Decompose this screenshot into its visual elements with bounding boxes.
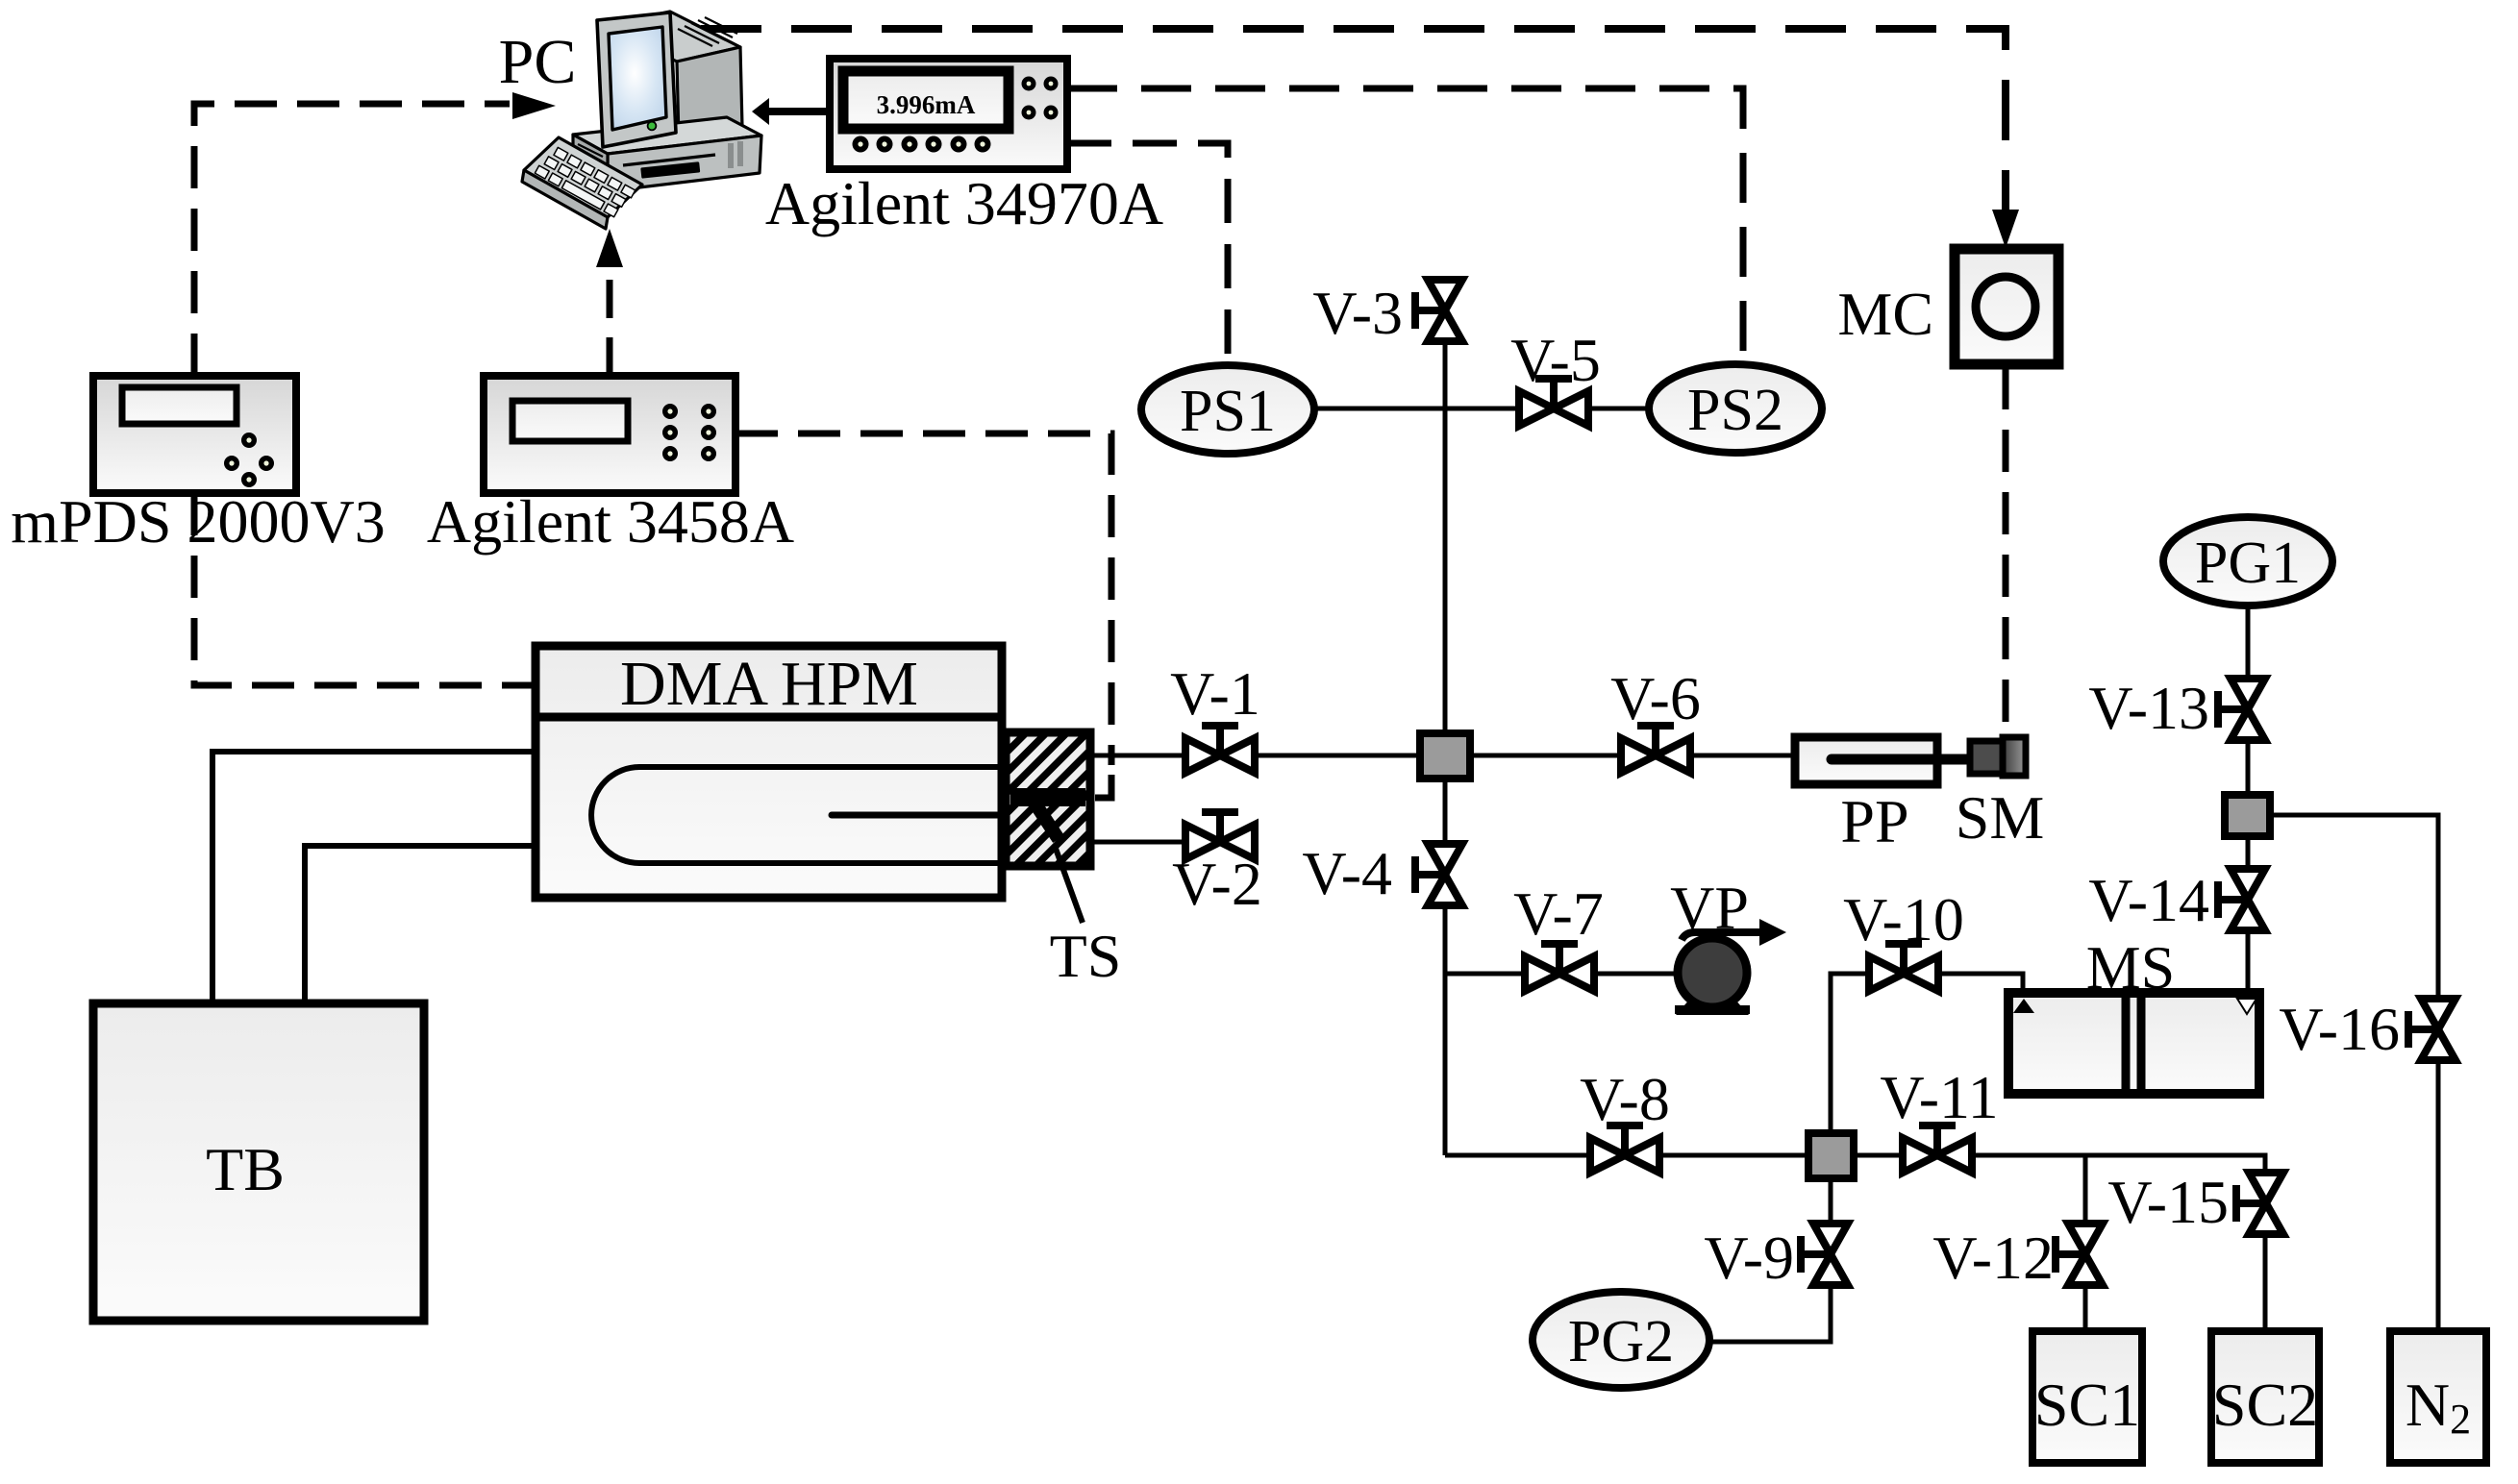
svg-text:PP: PP bbox=[1840, 787, 1908, 855]
svg-text:SC2: SC2 bbox=[2212, 1371, 2318, 1439]
valve V-2 bbox=[1172, 812, 1262, 918]
tank TB thermostat bath bbox=[93, 1003, 424, 1321]
device MC bbox=[1837, 249, 2058, 364]
valve V-10 bbox=[1843, 885, 1964, 991]
svg-text:Agilent 3458A: Agilent 3458A bbox=[427, 487, 794, 556]
wire solid 34970A-to-PC arrow bbox=[769, 108, 831, 115]
node junction J3 bbox=[2225, 795, 2270, 836]
wire vertical V-3-to-V-8 line bbox=[1443, 341, 1448, 1155]
instrument Agilent 34970A bbox=[765, 59, 1163, 237]
svg-text:V-6: V-6 bbox=[1610, 664, 1701, 732]
svg-text:Agilent 34970A: Agilent 34970A bbox=[765, 169, 1163, 237]
device PP piston bbox=[1795, 737, 1973, 855]
pointer line to TS label bbox=[1055, 846, 1083, 923]
arrow into MC bbox=[1992, 210, 2019, 248]
wire dashed mPDS-to-DMA bbox=[194, 493, 532, 685]
svg-text:SC1: SC1 bbox=[2034, 1371, 2140, 1439]
svg-text:V-1: V-1 bbox=[1170, 659, 1260, 728]
wire PS1-to-PS2 bbox=[1308, 407, 1654, 411]
wire V-15-to-SC2 bbox=[2263, 1232, 2268, 1331]
svg-text:PS2: PS2 bbox=[1687, 378, 1783, 443]
wire V-7 branch to VP bbox=[1445, 972, 1679, 977]
block TS thermostat hatch bbox=[1006, 732, 1090, 866]
svg-text:V-13: V-13 bbox=[2088, 674, 2209, 742]
tank SC1 bbox=[2032, 1331, 2142, 1463]
svg-text:PG1: PG1 bbox=[2195, 531, 2301, 596]
valve V-12 bbox=[1932, 1224, 2103, 1292]
wire junction3-to-V-16-to-N2 bbox=[2274, 815, 2438, 1331]
tank SC2 bbox=[2211, 1331, 2319, 1463]
instrument mPDS 2000V3 bbox=[11, 376, 385, 556]
svg-text:V-16: V-16 bbox=[2279, 995, 2400, 1063]
sensor PS2 bbox=[1649, 364, 1822, 453]
wire junction2-to-V-10-to-MS bbox=[1831, 974, 2023, 1130]
valve V-8 bbox=[1580, 1065, 1670, 1173]
svg-text:V-15: V-15 bbox=[2107, 1168, 2229, 1236]
wire branch down to V-12 bbox=[2083, 1155, 2088, 1225]
valve V-16 bbox=[2279, 995, 2456, 1063]
valve V-6 bbox=[1610, 664, 1701, 773]
valve V-3 bbox=[1312, 279, 1462, 347]
svg-text:TB: TB bbox=[206, 1135, 285, 1203]
node junction J1 bbox=[1420, 733, 1470, 779]
svg-text:DMA HPM: DMA HPM bbox=[620, 649, 918, 719]
device DMA HPM densimeter bbox=[536, 646, 1002, 898]
sensor PS1 bbox=[1141, 365, 1314, 454]
wire dashed 3458A-to-PC bbox=[607, 267, 613, 376]
wire dashed PC-to-MC (top line) bbox=[701, 29, 2006, 210]
svg-text:V-12: V-12 bbox=[1932, 1224, 2054, 1292]
wire main line DMA-to-PP (through V-1, V-6) bbox=[1090, 754, 1795, 758]
svg-text:V-11: V-11 bbox=[1880, 1063, 1998, 1131]
svg-text:MS: MS bbox=[2086, 933, 2176, 1002]
wire dashed mPDS-to-PC bbox=[194, 104, 510, 376]
gauge PG1 bbox=[2163, 517, 2332, 606]
U-tube inside DMA bbox=[591, 767, 1006, 863]
svg-text:PC: PC bbox=[499, 27, 577, 97]
wire dashed 34970A-to-PS1 bbox=[1067, 143, 1228, 365]
capillary inside U-tube bbox=[832, 812, 1038, 819]
computer PC bbox=[522, 12, 761, 229]
wire V-11 line junction2-to-V-15 corner bbox=[1857, 1155, 2265, 1175]
wire DMA-to-V-2 bbox=[1090, 840, 1254, 845]
svg-text:3.996mA: 3.996mA bbox=[877, 90, 976, 119]
device SM stepper bbox=[1956, 737, 2045, 852]
wire junction3-to-V-14-to-MS bbox=[2246, 839, 2251, 998]
svg-text:PG2: PG2 bbox=[1568, 1309, 1674, 1374]
wire TB-to-DMA lower bbox=[305, 846, 536, 1003]
valve V-1 bbox=[1170, 659, 1260, 773]
svg-text:V-2: V-2 bbox=[1172, 850, 1262, 918]
wire PG1-to-V-13 bbox=[2246, 606, 2251, 679]
device MS bbox=[2008, 933, 2259, 1094]
svg-text:V-3: V-3 bbox=[1312, 279, 1403, 347]
svg-text:mPDS 2000V3: mPDS 2000V3 bbox=[11, 487, 385, 556]
node junction J2 bbox=[1808, 1133, 1854, 1178]
valve V-15 bbox=[2107, 1168, 2283, 1236]
svg-text:VP: VP bbox=[1670, 874, 1749, 942]
valve V-4 bbox=[1302, 839, 1462, 907]
valve V-11 bbox=[1880, 1063, 1998, 1173]
svg-text:V-10: V-10 bbox=[1843, 885, 1964, 953]
svg-text:V-8: V-8 bbox=[1580, 1065, 1670, 1133]
wire V-8 line to junction2 bbox=[1445, 1153, 1806, 1158]
arrow into PC from mPDS bbox=[512, 92, 556, 119]
svg-text:MC: MC bbox=[1837, 280, 1933, 348]
wire dashed 3458A-to-TS bbox=[735, 433, 1111, 765]
svg-text:TS: TS bbox=[1050, 922, 1122, 990]
wire dashed MC-to-SM bbox=[2003, 367, 2009, 738]
svg-text:V-9: V-9 bbox=[1704, 1224, 1794, 1292]
wire dashed 34970A-to-PS2 bbox=[1067, 88, 1743, 365]
svg-text:V-5: V-5 bbox=[1510, 326, 1601, 394]
valve V-5 bbox=[1510, 326, 1601, 426]
svg-text:V-4: V-4 bbox=[1302, 839, 1392, 907]
svg-text:V-7: V-7 bbox=[1513, 879, 1604, 948]
gauge PG2 bbox=[1533, 1292, 1709, 1388]
pump VP bbox=[1670, 874, 1786, 1015]
valve V-9 bbox=[1704, 1224, 1848, 1292]
tank N2 bbox=[2390, 1331, 2486, 1463]
valve V-14 bbox=[2088, 866, 2265, 934]
svg-text:PS1: PS1 bbox=[1180, 379, 1276, 444]
arrow up into PC keyboard bbox=[596, 229, 623, 267]
instrument Agilent 3458A bbox=[427, 376, 794, 556]
svg-text:V-14: V-14 bbox=[2088, 866, 2209, 934]
wire V-12-to-SC1 bbox=[2083, 1285, 2088, 1331]
wire junction2-to-V-9-to-PG2 bbox=[1709, 1181, 1831, 1342]
valve V-7 bbox=[1513, 879, 1604, 991]
wire TB-to-DMA upper bbox=[212, 752, 536, 1003]
valve V-13 bbox=[2088, 674, 2265, 742]
svg-text:SM: SM bbox=[1956, 783, 2045, 852]
wire V-13-to-junction3 bbox=[2246, 739, 2251, 792]
